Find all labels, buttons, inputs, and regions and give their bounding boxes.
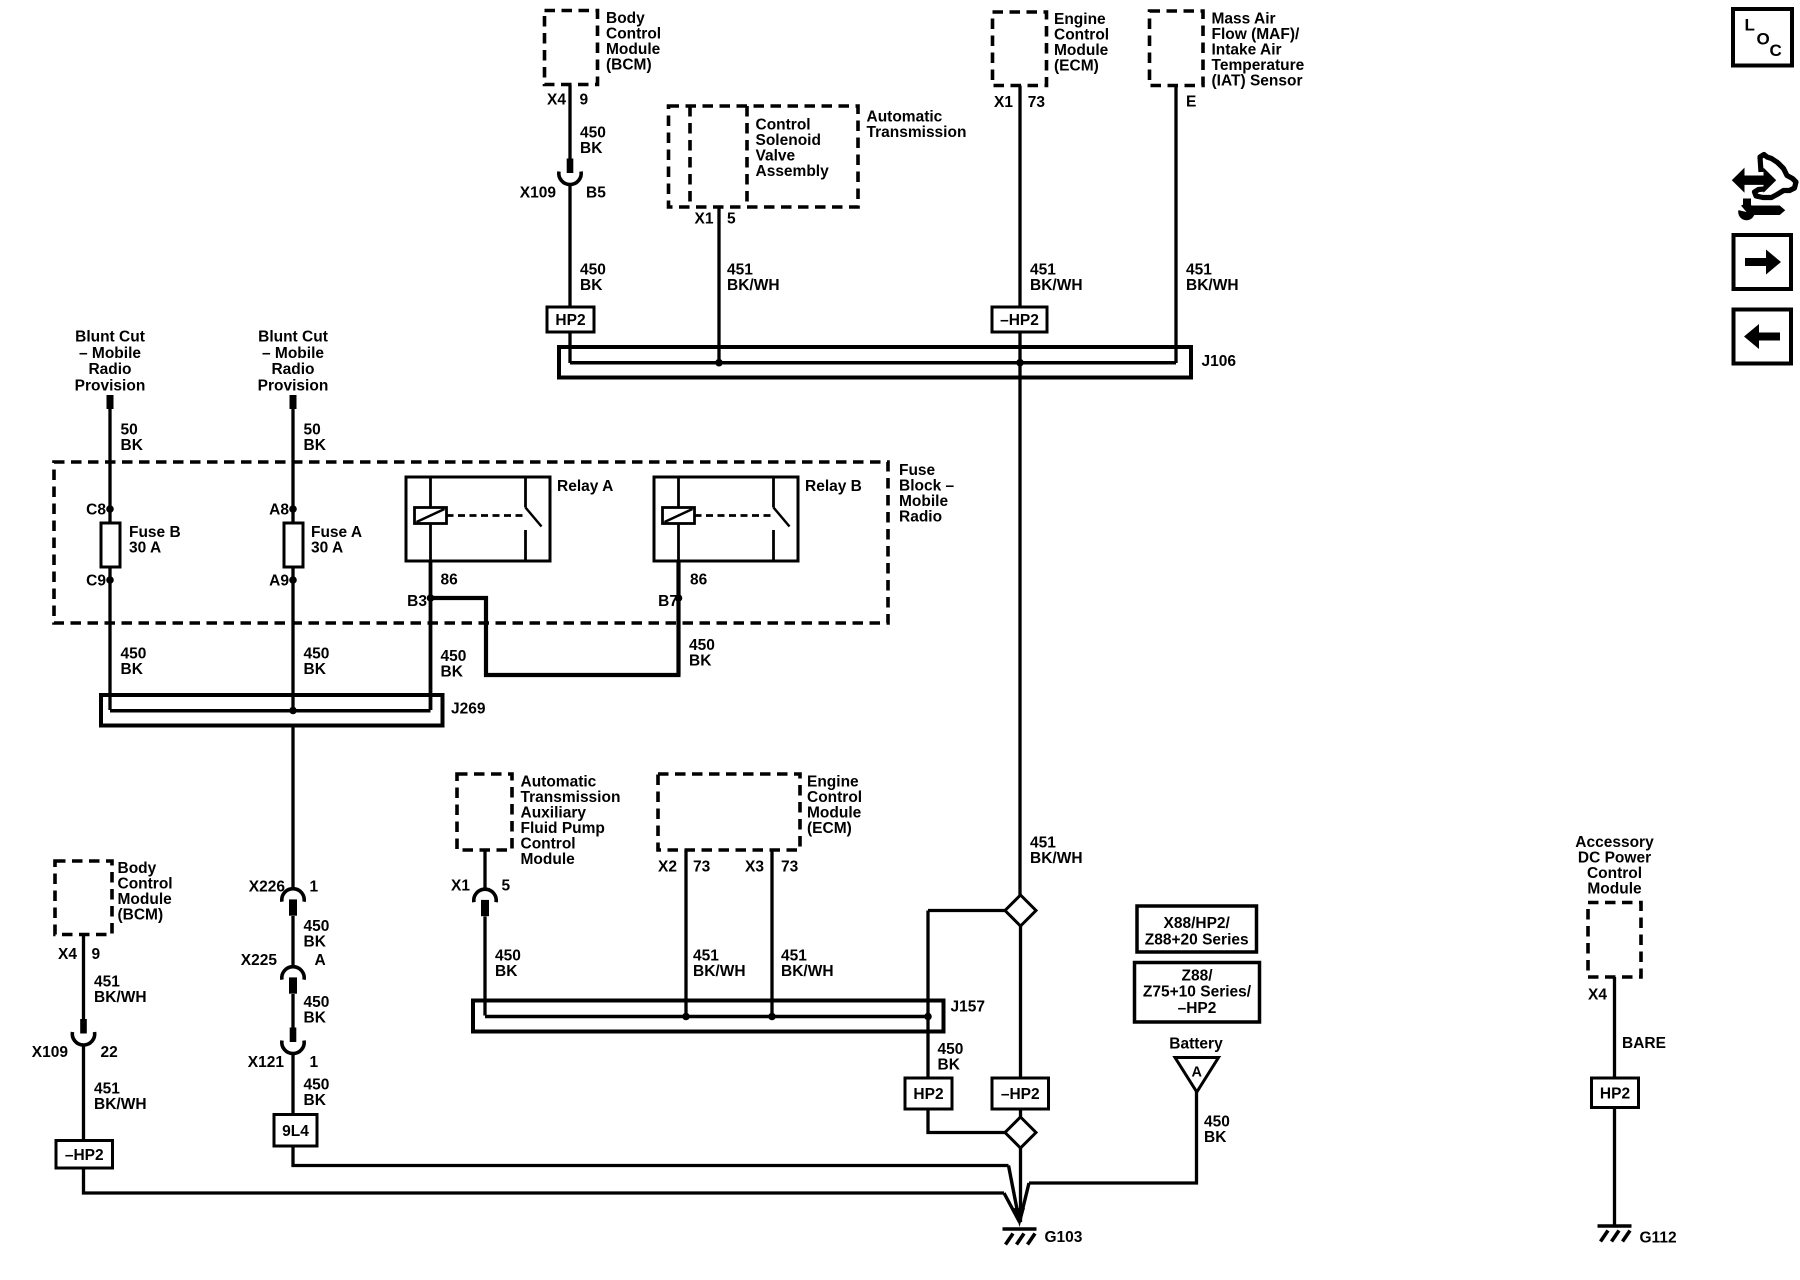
svg-text:450: 450: [580, 125, 606, 142]
svg-text:– Mobile: – Mobile: [79, 345, 141, 362]
svg-text:BK: BK: [1204, 1129, 1227, 1146]
svg-text:Control: Control: [118, 875, 173, 892]
svg-text:9L4: 9L4: [282, 1123, 309, 1140]
svg-text:Blunt Cut: Blunt Cut: [258, 329, 328, 346]
svg-text:22: 22: [101, 1044, 118, 1061]
svg-text:50: 50: [304, 422, 321, 439]
svg-text:73: 73: [693, 859, 711, 876]
svg-text:450: 450: [938, 1041, 964, 1058]
svg-text:BK: BK: [121, 661, 144, 678]
svg-text:C9: C9: [86, 573, 106, 590]
svg-text:(BCM): (BCM): [606, 56, 652, 73]
svg-text:30 A: 30 A: [129, 540, 161, 557]
svg-text:B5: B5: [586, 185, 606, 202]
svg-text:X4: X4: [547, 92, 566, 109]
svg-text:Automatic: Automatic: [521, 773, 597, 790]
svg-text:BK: BK: [938, 1057, 961, 1074]
svg-text:1: 1: [310, 878, 319, 895]
svg-text:Transmission: Transmission: [521, 789, 621, 806]
svg-text:30 A: 30 A: [311, 540, 343, 557]
svg-text:450: 450: [304, 646, 330, 663]
svg-text:Module: Module: [118, 891, 173, 908]
svg-text:451: 451: [94, 1081, 120, 1098]
svg-text:J106: J106: [1202, 353, 1237, 370]
svg-text:Control: Control: [521, 835, 576, 852]
svg-text:X226: X226: [249, 878, 286, 895]
svg-text:C: C: [1770, 41, 1782, 60]
svg-text:BK: BK: [580, 277, 603, 294]
svg-text:BK/WH: BK/WH: [1186, 277, 1239, 294]
svg-text:BK: BK: [580, 140, 603, 157]
svg-text:– Mobile: – Mobile: [262, 345, 324, 362]
svg-text:X4: X4: [58, 946, 77, 963]
svg-text:Relay A: Relay A: [557, 478, 613, 495]
svg-text:Transmission: Transmission: [867, 124, 967, 141]
svg-text:BK: BK: [495, 963, 518, 980]
svg-text:73: 73: [1028, 94, 1046, 111]
svg-text:86: 86: [690, 572, 708, 589]
svg-text:BK: BK: [304, 1010, 327, 1027]
svg-text:Auxiliary: Auxiliary: [521, 804, 587, 821]
svg-text:Flow (MAF)/: Flow (MAF)/: [1212, 26, 1301, 43]
svg-text:Z75+10 Series/: Z75+10 Series/: [1143, 984, 1252, 1001]
svg-text:451: 451: [781, 948, 807, 965]
svg-text:BK/WH: BK/WH: [1030, 277, 1083, 294]
svg-text:A9: A9: [269, 573, 289, 590]
svg-text:A: A: [315, 952, 326, 969]
svg-text:Mass Air: Mass Air: [1212, 10, 1276, 27]
svg-text:A: A: [1192, 1065, 1203, 1081]
svg-text:Fuse A: Fuse A: [311, 524, 362, 541]
svg-text:Engine: Engine: [807, 773, 859, 790]
svg-text:450: 450: [304, 994, 330, 1011]
svg-text:–HP2: –HP2: [1178, 1000, 1217, 1017]
svg-text:Provision: Provision: [75, 378, 146, 395]
svg-text:Fuse B: Fuse B: [129, 524, 181, 541]
svg-text:BK: BK: [121, 437, 144, 454]
svg-text:X225: X225: [241, 952, 278, 969]
svg-text:9: 9: [580, 92, 589, 109]
svg-text:Assembly: Assembly: [756, 163, 830, 180]
svg-text:X3: X3: [745, 859, 764, 876]
svg-text:X88/HP2/: X88/HP2/: [1164, 915, 1231, 932]
svg-text:450: 450: [1204, 1114, 1230, 1131]
svg-text:X1: X1: [451, 878, 470, 895]
svg-text:A8: A8: [269, 502, 289, 519]
svg-text:451: 451: [727, 261, 753, 278]
svg-text:BK: BK: [304, 1092, 327, 1109]
svg-text:1: 1: [310, 1054, 319, 1071]
svg-text:Z88/: Z88/: [1181, 967, 1213, 984]
svg-text:Fuse: Fuse: [899, 462, 936, 479]
svg-text:BK/WH: BK/WH: [1030, 850, 1083, 867]
svg-text:–HP2: –HP2: [1001, 1086, 1040, 1103]
svg-text:Relay B: Relay B: [805, 478, 862, 495]
svg-text:BK/WH: BK/WH: [94, 1096, 147, 1113]
svg-text:Valve: Valve: [756, 147, 796, 164]
svg-text:450: 450: [441, 648, 467, 665]
svg-text:Blunt Cut: Blunt Cut: [75, 329, 145, 346]
svg-text:450: 450: [495, 948, 521, 965]
svg-text:HP2: HP2: [1600, 1085, 1630, 1102]
svg-text:G103: G103: [1045, 1229, 1083, 1246]
svg-text:X4: X4: [1588, 987, 1607, 1004]
svg-text:9: 9: [92, 946, 101, 963]
svg-text:B3: B3: [407, 593, 427, 610]
svg-text:450: 450: [689, 637, 715, 654]
svg-text:450: 450: [304, 918, 330, 935]
svg-text:(IAT) Sensor: (IAT) Sensor: [1212, 72, 1303, 89]
svg-text:5: 5: [727, 211, 736, 228]
svg-text:X109: X109: [520, 185, 557, 202]
svg-text:450: 450: [580, 261, 606, 278]
svg-text:X121: X121: [248, 1054, 285, 1071]
svg-text:X2: X2: [658, 859, 677, 876]
svg-text:–HP2: –HP2: [65, 1147, 104, 1164]
svg-text:Module: Module: [521, 851, 576, 868]
svg-text:BK/WH: BK/WH: [693, 963, 746, 980]
svg-text:Engine: Engine: [1054, 11, 1106, 28]
svg-text:BK/WH: BK/WH: [781, 963, 834, 980]
svg-text:BK: BK: [689, 653, 712, 670]
svg-text:BK/WH: BK/WH: [94, 989, 147, 1006]
svg-text:X1: X1: [695, 211, 714, 228]
svg-text:450: 450: [121, 646, 147, 663]
svg-text:(ECM): (ECM): [1054, 57, 1099, 74]
svg-text:451: 451: [693, 948, 719, 965]
svg-text:B7: B7: [658, 593, 678, 610]
svg-text:–HP2: –HP2: [1000, 312, 1039, 329]
svg-text:DC Power: DC Power: [1578, 849, 1651, 866]
svg-text:Radio: Radio: [271, 361, 314, 378]
svg-text:Control: Control: [1587, 865, 1642, 882]
svg-text:Radio: Radio: [899, 509, 942, 526]
svg-text:Intake Air: Intake Air: [1212, 41, 1282, 58]
svg-text:451: 451: [1030, 261, 1056, 278]
svg-text:451: 451: [1030, 835, 1056, 852]
svg-text:BK/WH: BK/WH: [727, 277, 780, 294]
svg-text:J269: J269: [451, 701, 486, 718]
svg-text:X109: X109: [32, 1044, 69, 1061]
svg-text:73: 73: [781, 859, 799, 876]
svg-text:Battery: Battery: [1169, 1035, 1223, 1052]
svg-text:5: 5: [502, 878, 511, 895]
svg-text:X1: X1: [994, 94, 1013, 111]
svg-text:Fluid Pump: Fluid Pump: [521, 820, 605, 837]
svg-text:(BCM): (BCM): [118, 906, 164, 923]
svg-text:C8: C8: [86, 502, 106, 519]
svg-text:G112: G112: [1640, 1230, 1677, 1247]
svg-text:Z88+20 Series: Z88+20 Series: [1145, 931, 1249, 948]
svg-text:Control: Control: [756, 116, 811, 133]
svg-text:BARE: BARE: [1622, 1035, 1666, 1052]
svg-text:Accessory: Accessory: [1575, 834, 1654, 851]
svg-text:451: 451: [94, 974, 120, 991]
svg-text:Solenoid: Solenoid: [756, 132, 821, 149]
svg-text:Block –: Block –: [899, 478, 955, 495]
svg-text:HP2: HP2: [913, 1086, 943, 1103]
svg-text:L: L: [1745, 16, 1755, 35]
svg-text:BK: BK: [441, 664, 464, 681]
svg-text:Mobile: Mobile: [899, 493, 948, 510]
svg-text:86: 86: [441, 572, 459, 589]
svg-text:451: 451: [1186, 261, 1212, 278]
svg-text:Radio: Radio: [88, 361, 131, 378]
svg-text:HP2: HP2: [555, 312, 585, 329]
svg-text:O: O: [1757, 30, 1770, 49]
svg-text:Automatic: Automatic: [867, 108, 943, 125]
svg-text:BK: BK: [304, 437, 327, 454]
svg-text:450: 450: [304, 1077, 330, 1094]
svg-text:Control: Control: [1054, 26, 1109, 43]
svg-text:Control: Control: [606, 25, 661, 42]
svg-text:Body: Body: [118, 860, 157, 877]
svg-text:50: 50: [121, 422, 138, 439]
svg-text:Module: Module: [606, 41, 661, 58]
svg-text:Module: Module: [1054, 42, 1109, 59]
svg-text:Body: Body: [606, 10, 645, 27]
svg-text:Provision: Provision: [258, 378, 329, 395]
svg-text:(ECM): (ECM): [807, 820, 852, 837]
svg-text:BK: BK: [304, 934, 327, 951]
svg-text:BK: BK: [304, 661, 327, 678]
svg-text:Module: Module: [807, 804, 862, 821]
svg-text:Module: Module: [1587, 880, 1642, 897]
svg-text:E: E: [1186, 94, 1196, 111]
svg-text:Temperature: Temperature: [1212, 57, 1305, 74]
svg-text:J157: J157: [951, 999, 985, 1016]
svg-text:Control: Control: [807, 789, 862, 806]
